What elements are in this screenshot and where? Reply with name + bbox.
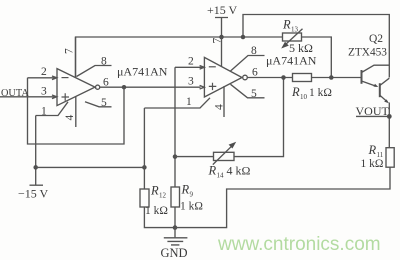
wire: U2 pin1 vertical to R12 (144, 108, 175, 228)
Q2 emitter 1 into base 2 (362, 81, 377, 86)
svg-text:8: 8 (101, 56, 107, 68)
node: R14 top junction (281, 75, 286, 80)
svg-text:OUTA: OUTA (1, 88, 29, 99)
svg-text:R: R (368, 143, 377, 157)
svg-text:R: R (150, 184, 159, 198)
svg-text:6: 6 (252, 67, 258, 79)
resistor R10 box (293, 74, 312, 82)
svg-text:1: 1 (41, 106, 47, 118)
svg-text:1 kΩ: 1 kΩ (361, 158, 384, 170)
resistor R11 box (386, 148, 394, 168)
svg-text:4: 4 (64, 115, 76, 121)
svg-text:7: 7 (63, 48, 75, 54)
wire: U2 pin 7 (221, 37, 223, 67)
arrow: U1 pin 3 (52, 95, 57, 99)
svg-text:5: 5 (251, 88, 257, 100)
svg-text:6: 6 (103, 77, 109, 89)
svg-text:R: R (208, 164, 217, 178)
wire: -15V rail to R12 node (36, 166, 145, 168)
node: rail junction to top line (241, 35, 246, 40)
svg-text:3: 3 (188, 76, 194, 88)
-15V terminal bar (30, 184, 44, 186)
op-amp U1 triangle (57, 69, 95, 106)
U1 output circle pin 6 (96, 85, 100, 89)
node: base node junction (329, 75, 334, 80)
node: R14 junction (173, 154, 178, 159)
R14 wiper arrow (213, 146, 232, 164)
node: R12 top junction (142, 165, 147, 170)
U2 output circle pin 6 (243, 75, 248, 80)
svg-text:9: 9 (190, 191, 194, 199)
node: U1 output junction (122, 85, 127, 90)
op-amp U1 plus sign (62, 93, 70, 100)
svg-text:4 kΩ: 4 kΩ (227, 164, 251, 178)
wire: U2 pin 2 feedback vertical (175, 67, 204, 187)
arrow: U2 pin 3 (200, 85, 205, 89)
resistor R14 box (214, 152, 235, 160)
node: VOUT junction (387, 114, 392, 119)
wire: to ground symbol (174, 228, 176, 238)
transistor Q2 base bar 1 (361, 70, 363, 84)
wire: U2 pin 8 leader (231, 56, 265, 72)
wire: U1 pin 7 (75, 37, 77, 78)
arrow: U1 pin 2 (52, 76, 57, 80)
svg-text:4: 4 (213, 104, 225, 110)
wire: emitter to VOUT and R11 (388, 103, 390, 148)
arrow: U2 pin 2 (200, 66, 205, 70)
svg-text:www.cntronics.com: www.cntronics.com (217, 234, 381, 255)
svg-text:R: R (181, 183, 190, 197)
wire: U1 pin 8 leader (77, 66, 112, 77)
svg-text:1 kΩ: 1 kΩ (145, 205, 168, 217)
wire: U1 pin 3 input (OUTA) (0, 96, 57, 98)
svg-text:R: R (282, 18, 291, 32)
resistor R9 box (171, 187, 180, 207)
resistor R12 box (140, 189, 149, 207)
Q2 collector 1 (362, 65, 390, 72)
op-amp U2 minus sign (209, 66, 216, 68)
resistor R13 box (pot) (283, 33, 302, 41)
wire: U1 pin 1 (36, 102, 68, 116)
svg-text:8: 8 (251, 45, 257, 57)
svg-text:2: 2 (41, 66, 47, 78)
wire: R11 bottom to ground run (175, 167, 390, 227)
svg-text:GND: GND (161, 246, 188, 260)
svg-text:1 kΩ: 1 kΩ (309, 87, 332, 99)
svg-text:10: 10 (300, 93, 308, 101)
wire: VOUT lead under text (356, 115, 389, 117)
svg-text:2: 2 (188, 56, 194, 68)
wire: R9 bottom (174, 207, 176, 228)
wire: +15V rail (76, 37, 283, 78)
svg-text:5 kΩ: 5 kΩ (289, 41, 313, 55)
R13 wiper arrow (286, 29, 303, 44)
svg-text:5: 5 (101, 97, 107, 109)
node: ground junction (173, 225, 178, 230)
wire: U1 pin 5 leader (85, 102, 112, 107)
wire: U2 pin 1 (144, 98, 210, 108)
node: rail junction at +15V terminal (219, 35, 224, 40)
svg-text:ZTX453: ZTX453 (348, 47, 387, 59)
op-amp U2 triangle (204, 57, 242, 97)
Q2 collector 2 (380, 78, 390, 85)
svg-text:−15 V: −15 V (18, 187, 49, 201)
wire: R14 left (175, 156, 214, 158)
wire: R13 right segment to base node (302, 37, 332, 78)
svg-text:μA741AN: μA741AN (266, 54, 317, 68)
svg-text:1: 1 (186, 96, 192, 108)
svg-text:14: 14 (217, 172, 225, 180)
wire: U1 pin 4 (75, 96, 77, 127)
op-amp U2 plus sign (209, 83, 217, 90)
svg-text:μA741AN: μA741AN (117, 65, 168, 79)
transistor Q2 base bar 2 (379, 83, 381, 97)
svg-text:+15 V: +15 V (207, 3, 238, 17)
svg-text:VOUT: VOUT (356, 104, 390, 118)
wire: R10 to Q2 base (312, 77, 362, 79)
wire: U2 pin 4 (223, 86, 225, 117)
wire: -15V branch (35, 116, 37, 186)
wire: U1 pin 2 input (28, 77, 58, 79)
wire: R14 right to output node (234, 78, 284, 157)
+15V terminal (215, 18, 228, 38)
wire: U2 pin 5 leader (231, 84, 265, 98)
svg-text:Q2: Q2 (369, 33, 383, 45)
svg-text:1 kΩ: 1 kΩ (180, 201, 203, 213)
wire: U1 output to U2 pin 3 (100, 86, 201, 88)
Q2 emitter 2 (380, 95, 388, 102)
svg-text:13: 13 (291, 26, 299, 34)
wire: +15V branch to Q2 collector (243, 15, 389, 78)
wire: U2 output to R10 (247, 77, 292, 79)
svg-text:R: R (291, 85, 300, 99)
node: -15V junction (33, 165, 38, 170)
op-amp U1 minus sign (62, 77, 69, 79)
svg-text:3: 3 (41, 86, 47, 98)
svg-text:12: 12 (159, 192, 167, 200)
wire: U1 feedback loop (28, 78, 125, 144)
svg-text:7: 7 (211, 38, 223, 44)
ground symbol (164, 238, 188, 245)
